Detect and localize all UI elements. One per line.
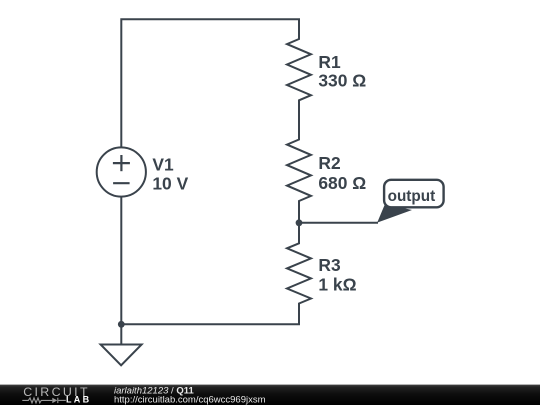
svg-text:330 Ω: 330 Ω <box>318 71 366 91</box>
svg-text:1 kΩ: 1 kΩ <box>318 275 356 295</box>
svg-text:V1: V1 <box>152 154 174 174</box>
svg-text:R3: R3 <box>318 255 341 275</box>
svg-text:output: output <box>388 188 436 205</box>
svg-text:http://circuitlab.com/cq6wcc96: http://circuitlab.com/cq6wcc969jxsm <box>114 395 266 405</box>
svg-text:10 V: 10 V <box>152 173 188 193</box>
svg-text:R2: R2 <box>318 153 340 173</box>
svg-text:LAB: LAB <box>66 395 91 405</box>
svg-text:680 Ω: 680 Ω <box>318 173 366 193</box>
svg-text:R1: R1 <box>318 52 341 72</box>
